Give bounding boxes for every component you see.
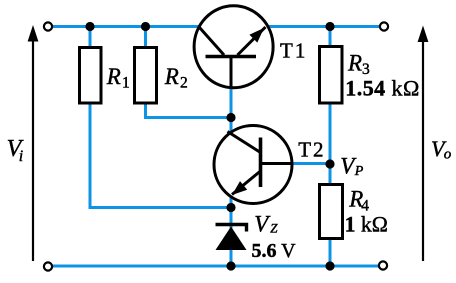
svg-text:1 kΩ: 1 kΩ [345, 213, 388, 237]
svg-text:R: R [347, 51, 362, 76]
svg-text:2: 2 [180, 74, 188, 91]
transistor T1 [194, 6, 273, 88]
svg-text:R: R [106, 64, 121, 89]
svg-text:R: R [164, 64, 179, 89]
label VP [340, 154, 364, 180]
node zener bottom rail junction [226, 261, 235, 270]
wire T2 emitter stub [230, 195, 233, 208]
label VZ [254, 211, 278, 236]
terminal bottom-left [44, 262, 52, 270]
svg-text:o: o [444, 147, 452, 163]
arrow Vi [28, 25, 39, 261]
arrow Vo [418, 26, 429, 262]
node VP junction [325, 159, 334, 168]
transistor T2 [214, 126, 293, 204]
wire R2 top stub [144, 27, 147, 49]
svg-text:P: P [354, 164, 364, 179]
zener diode VZ [216, 225, 247, 251]
wire R3 bottom to R4 top through VP [329, 102, 332, 186]
node T2 emitter / zener junction [226, 203, 235, 212]
wire bottom rail [51, 265, 382, 268]
wire T1 base / T2 collector [230, 86, 233, 132]
wire R3 top stub [329, 27, 332, 49]
svg-text:1.54 kΩ: 1.54 kΩ [345, 75, 420, 100]
node R3 top [325, 22, 334, 31]
label Vo [431, 136, 452, 163]
wire zener vertical [230, 208, 233, 267]
wire R1 top stub [89, 27, 92, 49]
svg-text:i: i [19, 148, 23, 165]
svg-text:T1: T1 [280, 39, 307, 63]
node R1 top [85, 22, 94, 31]
resistor R1 [80, 48, 102, 104]
wire R4 bottom [329, 237, 332, 266]
resistor R3 [320, 47, 343, 104]
wire top rail left [51, 25, 200, 28]
terminal bottom-right [379, 261, 387, 269]
wire R2 bottom to T1 base node [146, 102, 232, 118]
label R1 [106, 64, 130, 92]
resistor R2 [135, 48, 157, 104]
wire T2 base to node VP [292, 162, 330, 165]
terminal top-left [44, 22, 52, 30]
wire R1 bottom to T2 emitter node [90, 102, 231, 208]
node T1 base junction [226, 113, 235, 122]
node R2 top [141, 22, 150, 31]
label Vi [7, 136, 24, 165]
resistor R4 [320, 185, 343, 239]
svg-text:5.6 V: 5.6 V [252, 240, 297, 262]
label R3 [347, 51, 370, 79]
node R4 bottom rail junction [325, 261, 334, 270]
terminal top-right [380, 22, 388, 30]
svg-text:Z: Z [270, 221, 278, 236]
svg-text:1: 1 [122, 74, 130, 91]
wire top rail right [267, 25, 384, 28]
label R4 [348, 186, 369, 214]
svg-text:T2: T2 [298, 137, 325, 161]
label R2 [164, 64, 188, 92]
